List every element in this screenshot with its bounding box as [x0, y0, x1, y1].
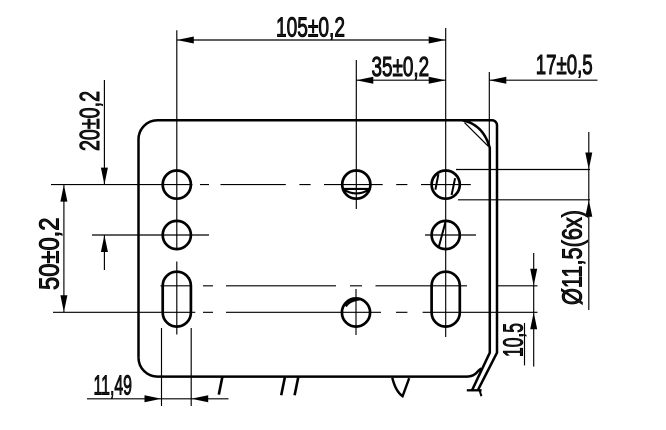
center line row C y=285.8 [161, 285, 538, 287]
hole top-left [163, 171, 191, 199]
plate outline left/top/right (thick) [139, 120, 498, 390]
hole top-right slash marks [435, 174, 455, 195]
svg-text:Ø11,5(6x): Ø11,5(6x) [557, 210, 588, 305]
vertical center/extension line col x=445.7 [445, 28, 447, 337]
bottom tab 3 (V shape) [392, 378, 409, 396]
center line row A y=184.6 [51, 184, 471, 186]
center line row D y=312.3 [53, 311, 538, 313]
diameter dim tangent extension lines [456, 170, 590, 200]
svg-text:105±0,2: 105±0,2 [276, 12, 345, 43]
dimension line 17 y=80.2 with outside arrow [489, 79, 597, 81]
svg-text:17±0,5: 17±0,5 [536, 49, 593, 80]
hole mid-left (second row) [163, 221, 191, 249]
dimension line 20 x=104.4 (outside arrows) [103, 80, 105, 270]
hole mid-right (second row) [432, 221, 460, 249]
svg-text:20±0,2: 20±0,2 [74, 91, 105, 151]
hole bottom-middle [342, 298, 370, 326]
slot bottom-left [163, 272, 191, 327]
vertical center/extension line col x=176.8 [176, 30, 178, 334]
dimension line 11,49 y=398.8 (outside arrows) [87, 398, 229, 400]
slot bottom-right [432, 272, 460, 327]
diameter dim line x=588.8 (outside arrows) [588, 132, 590, 310]
bottom tab 1 (single) [219, 377, 223, 394]
bottom tab 2 (double) [281, 378, 298, 396]
bend inner edge (right side fold) [462, 120, 490, 390]
dimension line 10,5 x=533.7 (outside arrows) [533, 253, 535, 367]
svg-text:50±0,2: 50±0,2 [34, 218, 65, 291]
svg-text:35±0,2: 35±0,2 [372, 51, 430, 82]
hole top-right [432, 171, 460, 199]
dimension line 35 y=80.2 [356, 79, 445, 81]
extension lines slot edges for 11,49 dim [162, 328, 192, 406]
svg-text:10,5: 10,5 [498, 323, 529, 357]
corner foot cap [467, 389, 482, 391]
svg-text:11,49: 11,49 [94, 370, 133, 401]
dimension line 50 x=63.9 [63, 185, 65, 313]
bend tangent chord [465, 123, 489, 147]
corner foot tail [480, 390, 482, 396]
plate bottom edge with rounded corners [139, 358, 482, 377]
extension line x=489.3 for 17 dim [488, 72, 490, 150]
center line row B y=235 [92, 234, 476, 236]
hole bottom-middle flange arc [346, 299, 361, 306]
hole mid-right slash mark [438, 222, 445, 248]
hole top-middle [342, 171, 370, 199]
dimension line 105 y=40 [177, 39, 446, 41]
vertical center line col x=356.3 [355, 60, 357, 335]
hole top-middle chord + flange arc [343, 189, 370, 194]
underline for 10,5 text [524, 323, 526, 365]
